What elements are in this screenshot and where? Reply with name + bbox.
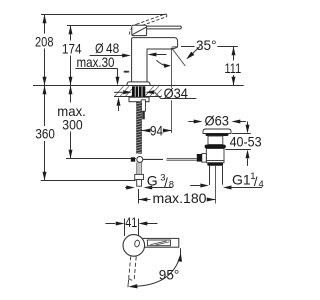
supply hose braided upper — [137, 102, 142, 154]
svg-text:208: 208 — [35, 34, 54, 50]
dimension 40-53 line — [247, 122, 249, 126]
dimension max.30 lower arrow — [118, 106, 120, 111]
top view: tip extension tick — [180, 248, 182, 254]
svg-text:111: 111 — [225, 60, 242, 76]
svg-text:/: / — [164, 175, 168, 190]
deck bottom line — [114, 96, 162, 98]
svg-text:94: 94 — [150, 122, 163, 138]
faucet lever bar (horizontal) — [146, 26, 182, 29]
svg-text:95°: 95° — [159, 267, 180, 283]
dimension 94 — [142, 130, 148, 132]
faucet cartridge box — [132, 25, 147, 35]
top view: spout arm — [142, 238, 179, 247]
svg-text:Ø63: Ø63 — [205, 113, 230, 129]
svg-text:41: 41 — [125, 214, 137, 230]
dimension Ø34 leader to label — [155, 92, 197, 98]
dimension 360 extension line — [41, 180, 136, 182]
dimension 40-53 extension lines — [232, 133, 251, 135]
top view: body circle — [123, 235, 145, 257]
svg-text:40-53: 40-53 — [230, 134, 262, 150]
dimension max.300 line — [70, 86, 72, 103]
svg-text:max.30: max.30 — [77, 54, 115, 70]
top view: dimension 41 arrows — [105, 223, 115, 225]
dimension Ø63 arrows — [188, 121, 194, 123]
svg-text:G: G — [147, 173, 158, 189]
pop-up rod knob at rear — [124, 71, 130, 73]
top view: dimension 41 extension lines — [124, 219, 126, 237]
dimension max.180 line — [139, 199, 151, 201]
mounting locknut under deck — [129, 97, 149, 102]
deck hatch right — [146, 86, 154, 95]
35 degree leader with arrow — [192, 47, 200, 55]
pop-up rod horizontal — [143, 158, 163, 160]
svg-text:G1: G1 — [232, 172, 251, 188]
dimension Ø48 arrow right — [156, 54, 167, 56]
waste locknut — [206, 149, 224, 163]
dimension 360 line — [44, 86, 46, 127]
faucet lever dashed (raised position) — [129, 14, 167, 35]
water stream line — [171, 48, 173, 133]
dimension max.300 extension line — [66, 158, 136, 160]
dimension 174 line — [70, 26, 72, 41]
35 degree spray line — [172, 48, 186, 66]
pop-up rod tee circle — [137, 157, 143, 163]
faucet body and spout outline — [132, 38, 178, 86]
deck hatch left — [115, 86, 162, 96]
top view: lever slot — [134, 240, 140, 248]
G1 1/4 label underline — [230, 187, 262, 189]
dimension 111 line — [233, 47, 235, 61]
top view: dashed rotated spout — [128, 256, 136, 287]
dimension Ø34 arrows — [114, 91, 123, 93]
supply hose 2 short tube — [141, 100, 145, 111]
G3/8 arrows — [125, 187, 126, 189]
deck top line — [33, 85, 244, 87]
waste tailpipe — [209, 166, 211, 185]
threaded shank — [132, 86, 145, 97]
dimension max.180 extension lines — [138, 189, 140, 204]
svg-text:4: 4 — [259, 179, 264, 190]
waste neck — [208, 136, 223, 145]
curved adjust arrow — [156, 60, 168, 66]
pull rod lower tube — [137, 162, 141, 174]
pop-up rod tee block — [131, 157, 135, 161]
waste seal band — [206, 134, 229, 137]
svg-text:360: 360 — [35, 126, 55, 142]
svg-text:8: 8 — [169, 180, 174, 191]
svg-text:max.180: max.180 — [153, 190, 207, 206]
aerator line — [172, 46, 177, 48]
waste bottom band — [207, 163, 223, 166]
hose end fitting — [135, 174, 144, 179]
svg-text:Ø34: Ø34 — [164, 85, 188, 101]
G3/8 thread pipe — [137, 180, 142, 187]
top view: swivel arc 95 — [134, 255, 181, 287]
svg-text:300: 300 — [62, 116, 82, 132]
supply hose 2 end — [142, 111, 145, 119]
svg-text:35°: 35° — [196, 37, 217, 53]
dimension 208 line — [44, 15, 46, 34]
dimension Ø48 leader left — [90, 55, 123, 57]
escutcheon base — [127, 82, 151, 86]
waste flange — [203, 129, 231, 134]
dimension max.30 underline and leader — [75, 68, 117, 70]
G1 1/4 arrows — [190, 185, 200, 187]
G3/8 label underline — [147, 187, 173, 189]
wire top extension line (208 top) — [41, 14, 166, 16]
dimension 174 extension line — [67, 25, 131, 27]
waste side port — [202, 154, 207, 163]
35 degree label line — [181, 46, 195, 48]
waste o-ring band — [205, 145, 226, 149]
svg-text:/: / — [254, 174, 258, 189]
waste centerline — [215, 166, 217, 204]
